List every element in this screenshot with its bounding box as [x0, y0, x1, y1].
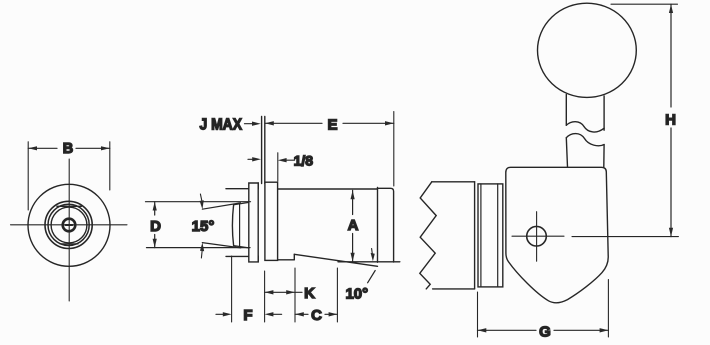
end cap / 10 deg reference bottom line [338, 261, 400, 263]
lever body outline [506, 167, 608, 302]
svg-text:C: C [311, 307, 322, 324]
dimension A line [352, 190, 354, 214]
pivot crosshair horizontal [512, 235, 564, 237]
knurled nut inner line left [480, 184, 482, 287]
pivot hole circle [527, 226, 547, 246]
dimension D arrow top [153, 202, 157, 211]
dimension H arrow bottom [669, 228, 673, 237]
dimension K/C extension line [294, 268, 296, 322]
ball knob circle [538, 3, 637, 97]
knurled nut ring outline [478, 184, 503, 287]
dimension G arrow left [478, 328, 487, 332]
dimension B arrow right [101, 146, 110, 150]
front view bezel ring outer [45, 201, 92, 248]
barrel bottom step [293, 254, 295, 259]
panel front line [261, 117, 263, 184]
end cap outline [378, 188, 394, 262]
dimension B line [28, 147, 57, 149]
svg-text:1/8: 1/8 [294, 153, 314, 169]
dimension C arrow right [329, 312, 338, 316]
dimension E extension line right [393, 112, 395, 187]
dimension E arrow left [265, 121, 274, 125]
dimension G line [478, 329, 537, 331]
knob neck right line lower [603, 145, 605, 167]
dimension C arrow left [295, 312, 304, 316]
svg-text:J MAX: J MAX [200, 117, 243, 134]
front view center hole [63, 219, 76, 232]
svg-text:K: K [304, 285, 315, 302]
neck break lower squiggle [566, 134, 604, 146]
plunger taper joint line [239, 204, 241, 246]
plunger bottom edge [234, 246, 249, 248]
bushing silhouette bottom line [226, 255, 249, 257]
retaining clip left edge [248, 189, 250, 257]
dimension D extension line top [146, 201, 251, 203]
dimension D arrow bottom [153, 239, 157, 248]
svg-text:G: G [539, 323, 551, 340]
front view face flat chord bottom [60, 243, 78, 245]
svg-text:H: H [665, 112, 676, 129]
barrel rear rectangle top edge [432, 181, 475, 183]
dimension A arrow top [351, 190, 355, 199]
dimension B extension line left [27, 142, 29, 210]
knurled nut inner line right [497, 184, 499, 287]
15 deg arrow bottom [200, 250, 203, 258]
dimension C extension line right [336, 268, 338, 322]
plunger top edge [234, 202, 249, 204]
dimension H arrow top [669, 4, 673, 13]
svg-text:D: D [150, 218, 161, 235]
1/8 gap left arrow [248, 158, 253, 160]
retaining clip bottom step [249, 256, 258, 262]
svg-text:B: B [63, 141, 73, 157]
dimension K arrow left [265, 290, 274, 294]
15 deg taper line top [202, 203, 240, 209]
front view keyway slot [66, 224, 73, 226]
plunger front face arc [232, 205, 233, 246]
dimension F extension line left [231, 256, 233, 322]
svg-text:A: A [348, 217, 359, 234]
panel rear line [264, 117, 266, 184]
1/8 leader arrow [286, 159, 295, 161]
knob neck left line lower [566, 138, 567, 167]
dimension D line [154, 202, 156, 215]
dimension E arrow right [385, 121, 394, 125]
dimension B arrow left [28, 146, 37, 150]
dimension E line [265, 122, 322, 124]
flange disc [265, 182, 278, 260]
1/8 extension line [277, 153, 279, 181]
front view horizontal centerline [11, 224, 128, 226]
15 deg arrow top [200, 194, 202, 202]
15 deg taper line bottom [202, 243, 240, 248]
dimension K line [265, 291, 302, 293]
dimension H top extension line [611, 3, 678, 5]
retaining clip top step [249, 183, 258, 189]
front view face flat chord top [57, 205, 82, 207]
knob neck right line upper [603, 96, 605, 130]
barrel rear break zigzag [420, 182, 436, 289]
dimension F left arrow [216, 313, 224, 315]
barrel 10 deg taper bottom [294, 254, 377, 266]
barrel rear rectangle bottom edge [433, 288, 475, 290]
dimension H bottom extension line [572, 236, 678, 238]
dimension F right arrow [272, 313, 282, 315]
front view vertical centerline [68, 159, 70, 301]
svg-text:E: E [327, 116, 337, 133]
barrel top edge [278, 188, 378, 190]
barrel rear rectangle right edge [474, 182, 476, 289]
J MAX leader arrow [245, 123, 255, 125]
svg-text:10°: 10° [345, 286, 368, 303]
svg-text:15°: 15° [192, 218, 215, 235]
dimension G extension line right [607, 280, 609, 338]
bushing silhouette top line [226, 188, 249, 190]
barrel bottom edge left [278, 259, 295, 261]
dimension G arrow right [600, 328, 609, 332]
front view outer circle [28, 184, 110, 266]
pivot crosshair vertical [536, 212, 538, 262]
dimension K arrow right [286, 290, 295, 294]
dimension H line [670, 4, 672, 107]
front view bezel ring inner [48, 204, 89, 245]
retaining clip right edge [257, 183, 259, 262]
dimension D extension line bottom [147, 247, 251, 249]
dimension C line [295, 313, 308, 315]
dimension A arrow bottom [351, 253, 355, 262]
dimension G extension line left [477, 292, 479, 337]
dimension B extension line right [109, 142, 111, 190]
dimension F/K extension line [264, 271, 266, 322]
10 deg angle arrow [368, 271, 376, 283]
knob neck left line upper [565, 95, 567, 126]
barrel end step line [377, 188, 379, 263]
svg-text:F: F [243, 307, 252, 324]
neck break upper squiggle [566, 122, 604, 132]
front view face circle [51, 207, 87, 243]
